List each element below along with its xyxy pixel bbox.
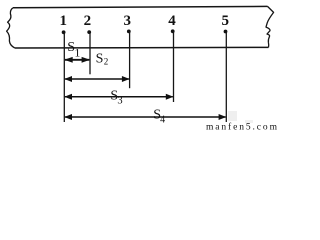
extension line from point 4: [173, 31, 175, 102]
dimension arrow S3 (points 1-4): [64, 94, 173, 100]
svg-text:S: S: [96, 51, 104, 66]
extension line from point 1: [63, 32, 65, 122]
dimension arrow S2 (points 1-3): [64, 76, 129, 82]
dot 5: [224, 30, 228, 34]
svg-text:4: 4: [160, 115, 165, 126]
dot 4: [171, 29, 175, 33]
dimension arrow S4 (points 1-5): [64, 114, 226, 120]
faint watermark smudge: [228, 111, 237, 121]
tape left break squiggle: [7, 8, 15, 48]
ticker-tape spacing diagram: [0, 0, 279, 131]
svg-text:4: 4: [168, 13, 176, 29]
svg-text:manfen5.com: manfen5.com: [206, 122, 279, 132]
extension line from point 2: [89, 32, 91, 74]
svg-text:5: 5: [222, 13, 230, 29]
svg-text:1: 1: [60, 13, 68, 29]
svg-text:1: 1: [74, 45, 80, 59]
tape bottom edge: [15, 46, 269, 49]
svg-text:2: 2: [84, 13, 92, 29]
dot 1: [62, 30, 66, 34]
svg-text:2: 2: [104, 57, 109, 67]
dimension arrow S1 (points 1-2): [64, 57, 90, 63]
dot 3: [127, 30, 131, 34]
tape right break squiggle: [266, 6, 274, 47]
svg-text:3: 3: [124, 13, 132, 29]
extension line from point 5: [225, 31, 227, 122]
dot 2: [87, 30, 91, 34]
tape top edge: [13, 6, 268, 7]
extension line from point 3: [129, 31, 131, 88]
svg-text:3: 3: [117, 95, 122, 106]
